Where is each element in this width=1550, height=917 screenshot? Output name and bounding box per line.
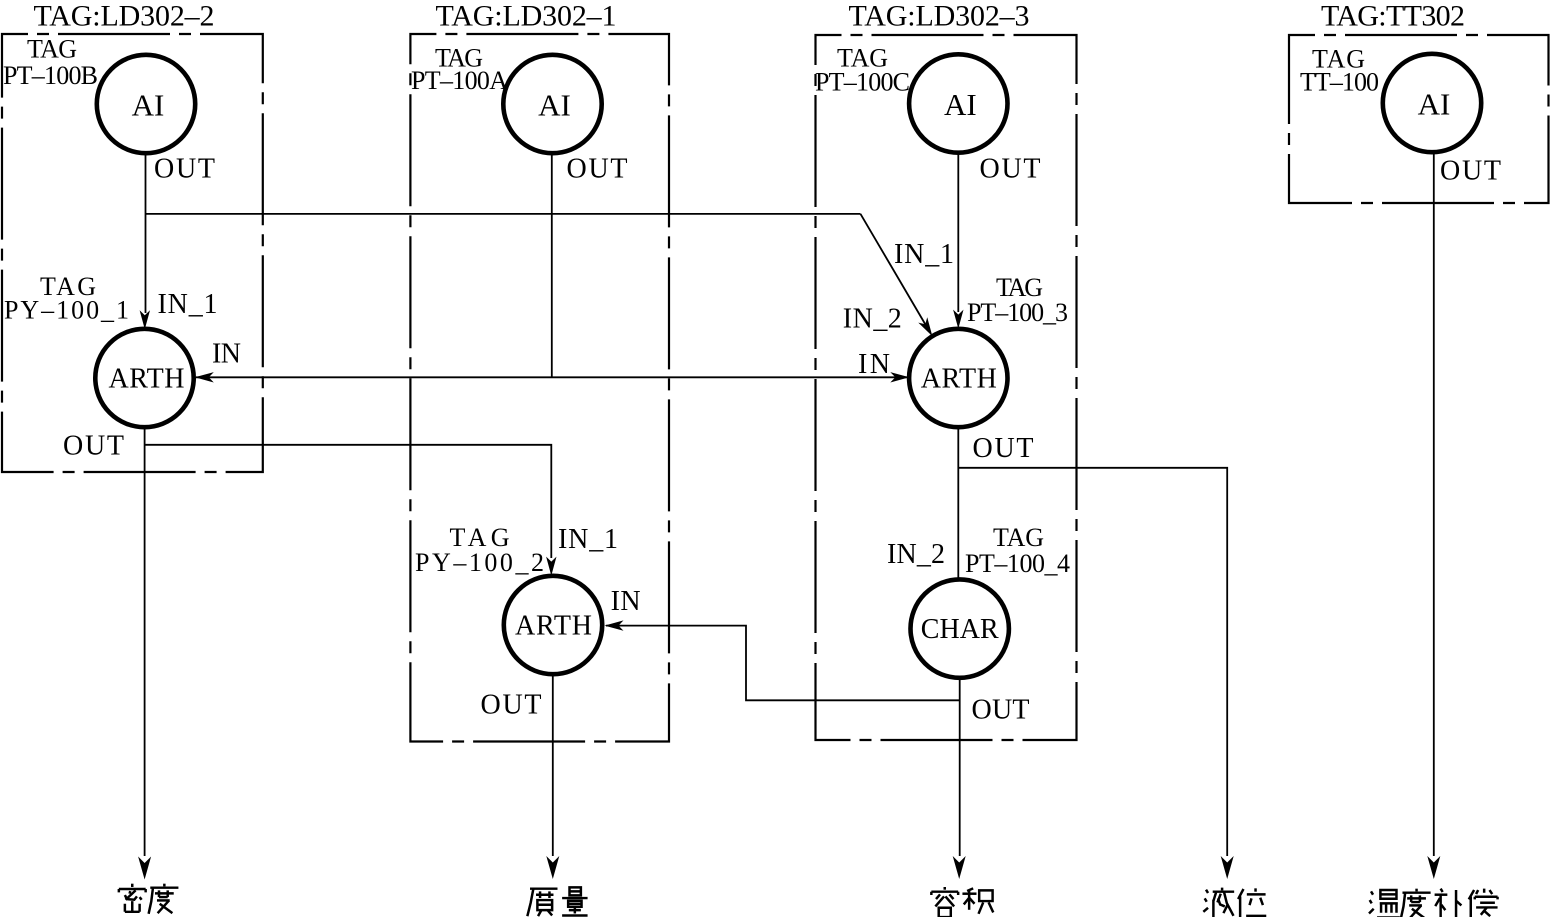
arrowhead output mass <box>546 856 559 879</box>
svg-text:TAG:LD302–1: TAG:LD302–1 <box>436 0 617 32</box>
label TAG PY-100_2 <box>415 523 544 577</box>
svg-text:CHAR: CHAR <box>921 614 999 645</box>
svg-text:IN_2: IN_2 <box>843 304 902 335</box>
wire branch ARTH PY-100_1 OUT to ARTH PY-100_2 IN_1 <box>145 445 552 558</box>
svg-text:PT–100A: PT–100A <box>411 66 508 95</box>
label TAG TT-100 <box>1300 45 1379 97</box>
svg-text:OUT: OUT <box>972 695 1030 726</box>
svg-text:PT–100_3: PT–100_3 <box>967 298 1068 327</box>
arrowhead output density <box>138 857 151 880</box>
arrowhead into ARTH PY-100_2 IN_1 <box>546 557 556 576</box>
arrowhead into ARTH PY-100_1 IN (leftward) <box>195 372 214 382</box>
svg-text:IN: IN <box>611 586 641 617</box>
svg-text:AI: AI <box>1418 87 1451 122</box>
output label density (Chinese) <box>119 884 179 914</box>
svg-text:IN_2: IN_2 <box>887 539 945 570</box>
wire ARTH PT-100_3 OUT down to CHAR PT-100_4 IN_2 <box>957 427 959 579</box>
device box TAG:LD302-2 <box>2 34 263 472</box>
svg-text:PY–100_1: PY–100_1 <box>4 296 129 325</box>
svg-text:IN_1: IN_1 <box>158 289 218 320</box>
wire AI PT-100C OUT down to ARTH PT-100_3 <box>957 153 959 312</box>
label TAG PY-100_1 <box>4 272 129 325</box>
function block AI (PT-100C) <box>909 54 1007 152</box>
wire ARTH PY-100_1 OUT down to density arrow <box>144 427 146 856</box>
svg-text:TAG:LD302–2: TAG:LD302–2 <box>34 0 215 32</box>
svg-text:TAG:LD302–3: TAG:LD302–3 <box>849 0 1030 32</box>
svg-text:IN_1: IN_1 <box>558 524 618 555</box>
arrowhead into ARTH PT-100_3 IN_1 (diagonal) <box>918 317 937 339</box>
svg-text:PY–100_2: PY–100_2 <box>415 548 544 577</box>
svg-text:OUT: OUT <box>1440 156 1501 187</box>
svg-text:OUT: OUT <box>481 690 542 721</box>
device box TAG:TT302 <box>1289 35 1549 203</box>
svg-text:OUT: OUT <box>980 153 1041 184</box>
arrowhead output temperature compensation <box>1427 856 1440 879</box>
svg-text:OUT: OUT <box>63 431 124 462</box>
wire diagonal into ARTH PT-100_3 IN_1 <box>861 214 927 326</box>
function block AI (PT-100A) <box>503 55 601 153</box>
arrowhead into ARTH PY-100_1 IN_1 <box>140 310 150 329</box>
svg-text:AI: AI <box>538 88 571 123</box>
svg-text:IN: IN <box>858 349 890 380</box>
svg-text:ARTH: ARTH <box>921 364 997 395</box>
arrowhead output level <box>1221 856 1234 879</box>
function block AI (PT-100B) <box>97 55 195 153</box>
arrowhead into ARTH PY-100_2 IN (leftward) <box>605 620 624 630</box>
label TAG PT-100_3 <box>967 273 1068 327</box>
wire AI PT-100A OUT down to IN bus <box>551 153 553 377</box>
output label volume (Chinese) <box>931 887 993 917</box>
arrowhead output volume <box>953 856 966 879</box>
output label temperature compensation (Chinese) <box>1369 889 1498 917</box>
svg-text:TAG: TAG <box>27 35 77 64</box>
arrowhead into ARTH PT-100_3 top <box>953 310 963 329</box>
svg-text:ARTH: ARTH <box>109 364 185 395</box>
svg-text:ARTH: ARTH <box>515 611 592 642</box>
svg-text:PT–100B: PT–100B <box>3 61 98 90</box>
output label mass (Chinese) <box>527 887 587 916</box>
device box TAG:LD302-3 <box>816 35 1077 740</box>
svg-text:PT–100_4: PT–100_4 <box>965 549 1070 578</box>
function block AI (TT-100) <box>1383 54 1481 152</box>
svg-text:TAG: TAG <box>993 523 1044 552</box>
wire branch from AI PT-100B OUT to ARTH PT-100_3 IN_1 (horizontal) <box>146 213 861 215</box>
function block ARTH (PY-100_2) <box>504 576 602 674</box>
svg-text:OUT: OUT <box>567 153 628 184</box>
function block CHAR (PT-100_4) <box>911 579 1009 677</box>
wire CHAR PT-100_4 OUT down to volume arrow <box>959 678 961 856</box>
device box TAG:LD302-1 <box>410 34 669 742</box>
wire branch ARTH PT-100_3 OUT to level arrow <box>958 468 1227 856</box>
wire AI TT-100 OUT down to temperature compensation arrow <box>1433 152 1435 856</box>
svg-text:TAG:TT302: TAG:TT302 <box>1321 0 1465 32</box>
svg-text:IN: IN <box>212 339 241 370</box>
function block ARTH (PT-100_3) <box>909 329 1007 427</box>
label TAG PT-100B <box>3 35 98 91</box>
function block ARTH (PY-100_1) <box>95 329 193 427</box>
svg-text:TT–100: TT–100 <box>1300 68 1379 97</box>
wire AI PT-100B OUT down to ARTH PY-100_1 IN_1 <box>145 153 147 313</box>
label TAG PT-100_4 <box>965 523 1070 578</box>
wire IN bus from ARTH PY-100_1 to ARTH PT-100_3 <box>196 376 908 378</box>
svg-text:AI: AI <box>132 88 165 123</box>
label TAG PT-100A <box>411 44 508 96</box>
wire CHAR PT-100_4 OUT back to ARTH PY-100_2 IN <box>606 626 960 701</box>
label TAG PT-100C <box>815 44 910 97</box>
svg-text:PT–100C: PT–100C <box>815 68 910 97</box>
svg-text:OUT: OUT <box>973 433 1034 464</box>
wire ARTH PY-100_2 OUT down to mass arrow <box>552 674 554 856</box>
svg-text:AI: AI <box>944 87 977 122</box>
arrowhead into ARTH PT-100_3 IN (rightward) <box>890 372 909 382</box>
svg-text:OUT: OUT <box>154 153 215 184</box>
output label level (Chinese) <box>1203 888 1266 917</box>
svg-text:IN_1: IN_1 <box>894 239 954 270</box>
